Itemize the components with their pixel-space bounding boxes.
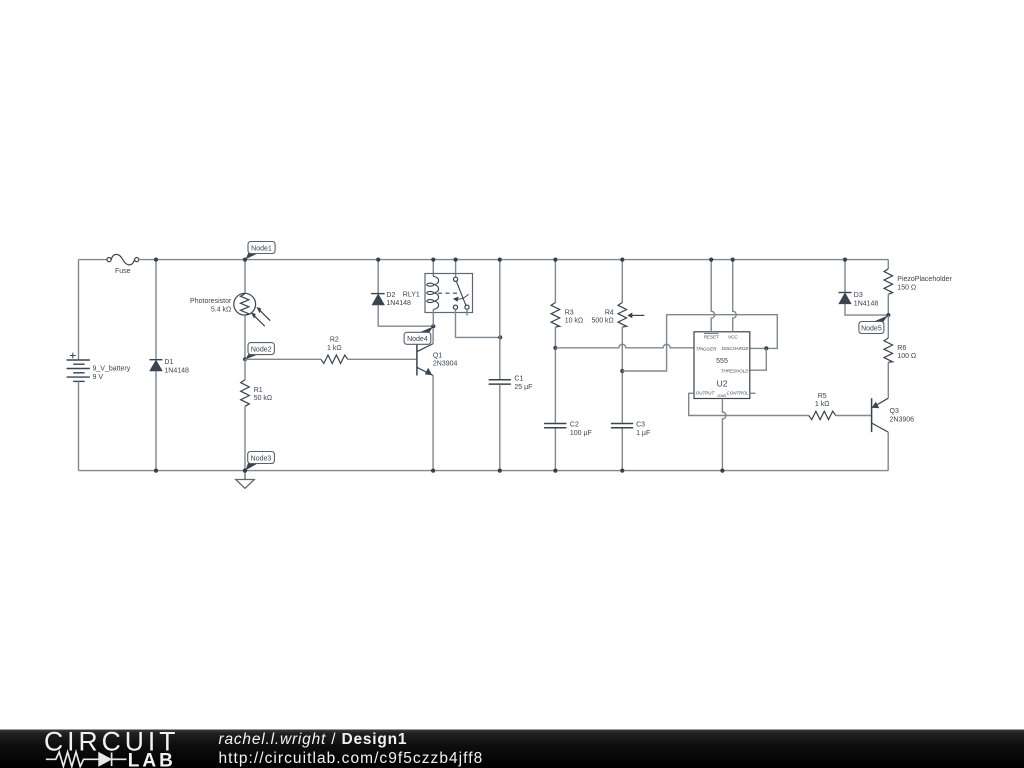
svg-text:C3: C3 [636,422,645,429]
svg-text:Q3: Q3 [890,408,899,415]
svg-text:100 µF: 100 µF [570,430,592,437]
svg-text:rachel.l.wright / Design1: rachel.l.wright / Design1 [219,731,408,748]
junction dot bottom rail GND [720,469,724,473]
wire D1 branch lower [155,371,157,471]
svg-text:2N3904: 2N3904 [433,361,458,368]
wire GND pin with hop [722,399,726,471]
resistor R1 50 kΩ [241,380,250,407]
diode D1 [150,360,163,371]
junction dot bottom rail C3 [620,469,624,473]
node Node2 [246,343,275,360]
wire photoresistor branch upper [244,260,246,294]
wire photoresistor to Node2 [244,315,246,359]
junction dot Node1 [243,258,247,262]
junction dot discharge [764,346,768,350]
wire OUTPUT to R5 [689,393,809,415]
wire D2 branch upper [377,260,379,294]
photoresistor 5.4 kΩ [234,293,270,326]
wire C2 lower [554,429,556,471]
resistor R6 100 Ω [884,338,893,362]
svg-text:LAB: LAB [128,751,176,768]
svg-text:2N3906: 2N3906 [890,417,915,424]
wire Q1 collector to Node4 [432,326,434,343]
svg-text:R3: R3 [565,309,574,316]
svg-text:DISCHARGE: DISCHARGE [722,346,750,351]
wire C1 lower [499,385,501,471]
wire trigger line with hops [555,344,694,348]
wire R3 branch upper [554,260,556,303]
battery 9_V_battery 9 V [67,353,90,382]
potentiometer R4 500 kΩ [618,303,644,328]
junction dot relay wire to C1 line [498,335,502,339]
wire C3 lower [621,429,623,471]
svg-text:1N4148: 1N4148 [164,367,189,374]
junction dot Node4 [431,324,435,328]
junction dot top rail R4 [620,258,624,262]
wire left rail lower [78,381,80,470]
junction dot bottom rail C2 [553,469,557,473]
svg-text:1 kΩ: 1 kΩ [815,401,830,408]
wire Node5 to R6 [887,315,889,338]
wire R4 bottom to discharge loop [622,315,777,371]
svg-text:1 µF: 1 µF [636,430,650,437]
junction dot Node2 [243,357,247,361]
fuse Fuse [107,254,139,265]
svg-text:R1: R1 [254,387,263,394]
svg-text:U2: U2 [717,379,728,389]
junction dot R3 trigger [553,346,557,350]
diode D3 [839,293,852,304]
svg-text:9_V_battery: 9_V_battery [93,366,131,373]
svg-text:5.4 kΩ: 5.4 kΩ [211,307,231,314]
wire left rail upper [78,260,80,360]
wire RESET pin with hop [711,260,715,332]
wire C1 branch upper [499,260,501,380]
svg-text:Q1: Q1 [433,352,442,359]
svg-text:THRESHOLD: THRESHOLD [721,369,750,374]
wire R3 lower [554,327,556,423]
capacitor C1 25 µF [489,380,511,384]
junction dot bottom rail C1 [498,469,502,473]
wire piezo branch top corner [887,260,889,269]
svg-text:VCC: VCC [728,334,738,339]
junction dot top rail RESET [709,258,713,262]
capacitor C2 100 µF [544,424,566,428]
wire D3 lower to Node5 [845,304,888,315]
node Node4 [404,327,433,345]
svg-text:R2: R2 [330,337,339,344]
resistor R2 1 kΩ [321,355,348,364]
wire relay contact to C1 line [456,309,501,337]
junction dot top rail R3 [553,258,557,262]
ground [236,471,255,489]
junction dot top rail VCC [731,258,735,262]
wire Q3 collector down [887,432,889,471]
svg-text:50 kΩ: 50 kΩ [254,395,272,402]
transistor Q3 2N3906 [872,398,889,432]
wire top rail main [139,259,889,261]
wire D2 lower to Node4 [378,305,433,326]
junction dot bottom rail D1 [154,469,158,473]
node Node3 [246,452,275,471]
wire Q1 emitter down [432,376,434,471]
svg-text:Node5: Node5 [861,325,882,332]
junction dot bottom rail Q1 [431,469,435,473]
svg-text:555: 555 [716,358,728,365]
svg-text:Node1: Node1 [251,245,272,252]
svg-text:Node3: Node3 [251,455,272,462]
junction dot bottom rail Node3x [243,469,247,473]
junction dot top rail C1 [498,258,502,262]
svg-text:R5: R5 [818,393,827,400]
wire R1 to bottom rail [244,406,246,470]
svg-text:Node4: Node4 [407,336,428,343]
wire D1 branch upper [155,260,157,360]
footer logo resistor-diode [46,752,127,767]
svg-text:150 Ω: 150 Ω [897,285,916,292]
resistor R5 1 kΩ [809,411,836,420]
wire piezo to Node5 [887,294,889,315]
svg-text:CONTROL: CONTROL [726,391,748,396]
wire relay coil bottom pin [432,309,434,326]
svg-text:PiezoPlaceholder: PiezoPlaceholder [897,276,952,283]
junction dot top rail D1 [154,258,158,262]
junction dot relay contact [454,258,458,262]
wire VCC pin with hop [733,260,737,332]
op-amp U2 555 box [694,332,750,399]
junction dot relay coil [431,258,435,262]
svg-text:25 µF: 25 µF [514,384,532,391]
svg-text:C2: C2 [570,422,579,429]
junction dot Node3 [243,469,247,473]
wire relay top contact pin [455,260,457,278]
node Node1 [246,242,276,260]
junction dot Node5 [886,313,890,317]
svg-text:D3: D3 [854,292,863,299]
junction dot top rail D2 [376,258,380,262]
svg-text:9 V: 9 V [93,374,104,381]
svg-text:10 kΩ: 10 kΩ [565,318,583,325]
wire R2 line left [245,358,321,360]
capacitor C3 1 µF [611,424,633,428]
wire discharge to threshold [750,348,767,370]
wire relay coil top pin [432,260,434,277]
wire top rail left segment [79,259,108,261]
wire Node2 to R1 [244,359,246,379]
wire R6 to Q3 emitter [887,362,889,398]
wire R4 lower [621,327,623,423]
svg-text:1 kΩ: 1 kΩ [327,345,342,352]
svg-text:D2: D2 [386,292,395,299]
diode D2 [371,294,385,305]
svg-text:http://circuitlab.com/c9f5czzb: http://circuitlab.com/c9f5czzb4jff8 [219,750,484,767]
svg-text:OUTPUT: OUTPUT [696,391,716,396]
svg-text:C1: C1 [514,376,523,383]
svg-text:500 kΩ: 500 kΩ [591,318,613,325]
junction dot R4 lower wire [620,369,624,373]
transistor Q1 2N3904 [417,344,433,376]
svg-text:1N4148: 1N4148 [854,300,879,307]
resistor PiezoPlaceholder 150 Ω [884,269,893,294]
footer bar [0,730,1024,768]
svg-text:R4: R4 [605,309,614,316]
svg-text:Photoresistor: Photoresistor [190,298,232,305]
wire bottom rail [79,470,889,472]
wire relay right contact stub [466,309,468,315]
svg-text:RESET: RESET [704,334,720,339]
wire R4 branch upper [621,260,623,303]
node Node5 [859,316,888,334]
wire D3 branch upper [844,260,846,293]
svg-text:GND: GND [717,393,726,398]
junction dot top rail D3 [843,258,847,262]
svg-text:R6: R6 [897,345,906,352]
svg-text:TRIGGER: TRIGGER [696,346,717,351]
resistor R3 10 kΩ [551,303,560,328]
relay RLY1 [425,274,473,313]
svg-text:100 Ω: 100 Ω [897,353,916,360]
wire CONTROL stub [750,392,756,394]
wire R2 to Q1 base [348,358,417,360]
svg-text:Fuse: Fuse [115,268,131,275]
svg-text:RLY1: RLY1 [403,291,420,298]
wire R5 to Q3 base [836,415,872,417]
svg-text:1N4148: 1N4148 [386,300,411,307]
svg-text:Node2: Node2 [251,346,272,353]
svg-text:D1: D1 [164,359,173,366]
